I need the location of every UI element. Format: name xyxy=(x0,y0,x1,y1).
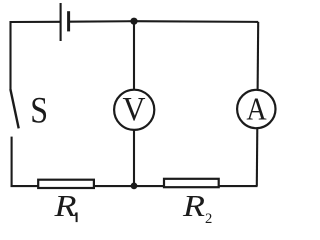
resistor R2 box xyxy=(164,179,219,187)
wire top-left from corner to battery xyxy=(11,21,61,23)
svg-text:A: A xyxy=(246,91,266,127)
wire top-right from battery through node to corner xyxy=(69,20,258,23)
svg-text:R: R xyxy=(182,188,205,223)
voltmeter V circle xyxy=(114,90,154,130)
resistor R1 box xyxy=(38,180,94,188)
svg-text:2: 2 xyxy=(205,211,212,226)
wire voltmeter branch vertical xyxy=(133,21,135,186)
svg-text:S: S xyxy=(30,90,48,131)
wire left vertical upper (to switch) xyxy=(9,21,11,90)
node top junction dot xyxy=(130,18,137,25)
label R1 subscript 1 xyxy=(76,212,78,222)
node bottom junction dot xyxy=(131,183,138,190)
wire left vertical lower (switch to corner) xyxy=(11,137,13,186)
svg-text:V: V xyxy=(123,91,146,128)
svg-text:R: R xyxy=(53,188,76,223)
wire right vertical xyxy=(257,22,258,186)
ammeter A circle xyxy=(237,90,275,128)
wire bottom full xyxy=(11,185,258,187)
battery long plate (positive) xyxy=(60,3,62,41)
battery short thick plate (negative) xyxy=(67,11,70,31)
switch S blade xyxy=(10,89,18,128)
